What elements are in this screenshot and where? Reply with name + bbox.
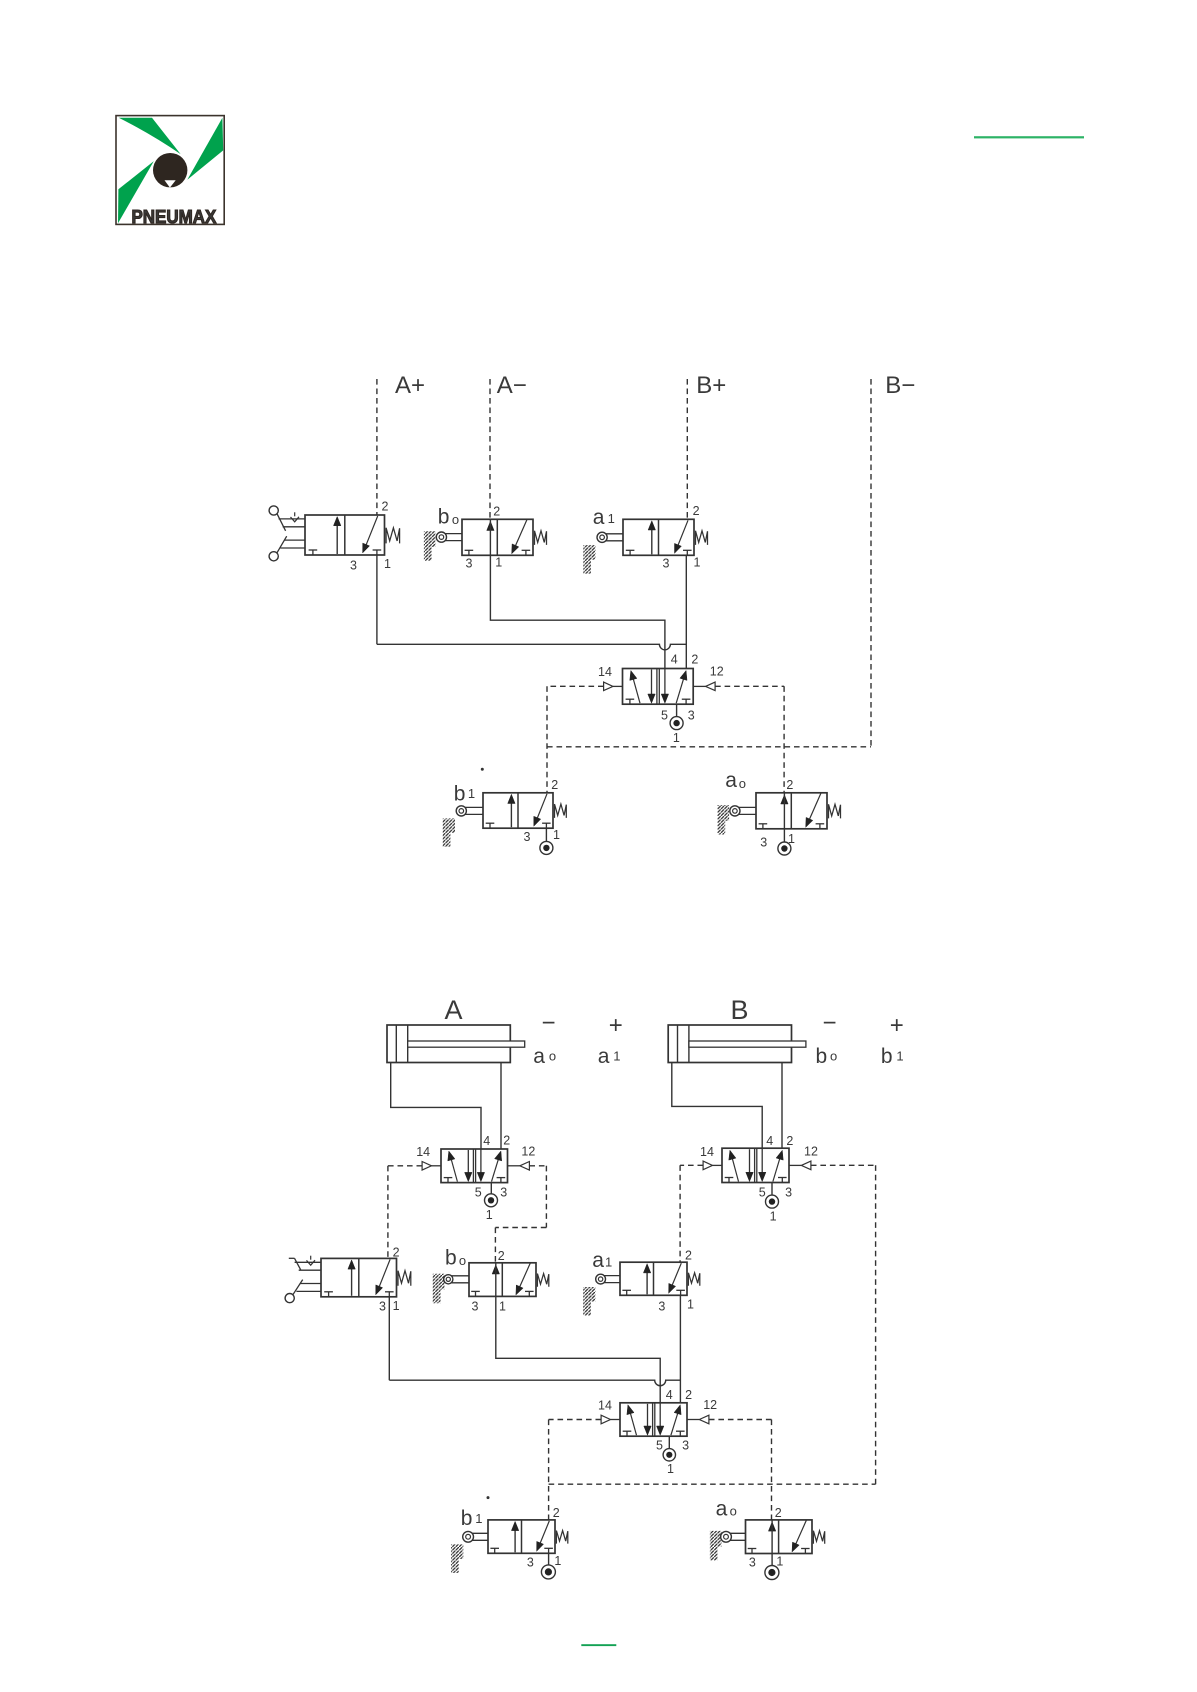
valve VA 5/2 power valve for cylinder A bbox=[422, 1149, 529, 1183]
svg-text:3: 3 bbox=[749, 1555, 756, 1569]
valve a1L limit valve 3/2 (lower) bbox=[583, 1262, 700, 1315]
svg-text:1: 1 bbox=[499, 1300, 506, 1314]
svg-text:A: A bbox=[445, 995, 463, 1025]
valve b1L limit valve 3/2 (lower bottom row) bbox=[451, 1520, 568, 1573]
svg-text:14: 14 bbox=[700, 1145, 714, 1159]
svg-text:b: b bbox=[816, 1045, 828, 1068]
svg-text:2: 2 bbox=[551, 778, 558, 792]
pressure source under a0 bbox=[778, 829, 791, 855]
valve b0 limit valve 3/2 (upper) bbox=[424, 519, 547, 560]
svg-text:−: − bbox=[823, 1010, 837, 1037]
svg-text:1: 1 bbox=[608, 511, 615, 526]
valve a0 labels bbox=[725, 769, 795, 850]
valve VA labels bbox=[416, 1134, 535, 1200]
svg-text:1: 1 bbox=[694, 556, 701, 570]
valve a0 limit valve 3/2 (upper bottom row) bbox=[717, 793, 840, 835]
svg-text:b: b bbox=[454, 782, 466, 805]
pressure source under VB bbox=[766, 1183, 779, 1224]
wire junction horizontal to 5/2 port2 with hop over port4 line bbox=[377, 644, 686, 650]
svg-text:o: o bbox=[549, 1049, 556, 1064]
valve M2 5/2 memory valve (lower) bbox=[601, 1403, 709, 1436]
pilot bus dashed horizontal to B- bbox=[547, 746, 871, 748]
svg-text:a: a bbox=[533, 1045, 545, 1068]
cylinder A stroke labels minus plus a0 a1 bbox=[533, 1010, 623, 1069]
pilot line 14 of M1 to node b1 bbox=[547, 686, 604, 793]
svg-text:1: 1 bbox=[495, 556, 502, 570]
svg-text:A+: A+ bbox=[395, 372, 425, 399]
pilot line VB 14 from a1 port 2 bbox=[680, 1165, 703, 1262]
svg-text:a: a bbox=[598, 1045, 610, 1068]
svg-text:14: 14 bbox=[598, 665, 612, 679]
valve a1 labels bbox=[593, 504, 701, 571]
svg-text:b: b bbox=[881, 1045, 893, 1068]
svg-text:12: 12 bbox=[804, 1145, 818, 1159]
svg-text:B: B bbox=[731, 995, 749, 1025]
svg-text:2: 2 bbox=[693, 504, 700, 518]
svg-text:1: 1 bbox=[673, 731, 680, 745]
green rule top right bbox=[974, 136, 1084, 138]
svg-text:2: 2 bbox=[775, 1506, 782, 1520]
wire b0 port1 to 5/2 port 4 bbox=[490, 555, 665, 668]
svg-text:2: 2 bbox=[493, 505, 500, 519]
svg-text:12: 12 bbox=[521, 1145, 535, 1159]
valve b1L labels and dot bbox=[461, 1496, 562, 1569]
svg-text:5: 5 bbox=[759, 1186, 766, 1200]
svg-text:12: 12 bbox=[710, 665, 724, 679]
svg-text:1: 1 bbox=[896, 1049, 903, 1064]
wire b0L port1 to M2 port 4 bbox=[496, 1296, 660, 1402]
svg-text:o: o bbox=[459, 1253, 466, 1268]
wire start valve port1 to M2 port 2 with hop bbox=[389, 1297, 680, 1386]
svg-text:B−: B− bbox=[885, 372, 915, 399]
svg-text:2: 2 bbox=[503, 1134, 510, 1148]
svg-text:a: a bbox=[592, 1249, 604, 1272]
valve V1L 3/2 manual start valve (lower) bbox=[285, 1256, 411, 1303]
svg-text:2: 2 bbox=[691, 653, 698, 667]
svg-text:o: o bbox=[452, 512, 459, 527]
cylinder B double acting bbox=[668, 1025, 806, 1063]
valve M1 5/2 memory valve (upper) bbox=[604, 669, 716, 705]
svg-text:1: 1 bbox=[468, 786, 475, 801]
wire cylinder A front port to valve VA port 2 bbox=[500, 1063, 502, 1150]
wire a1 port1 to 5/2 port 2 bbox=[685, 555, 687, 668]
svg-text:1: 1 bbox=[486, 1208, 493, 1222]
svg-text:1: 1 bbox=[687, 1298, 694, 1312]
svg-text:b: b bbox=[438, 506, 450, 529]
pilot bus dashed horizontal lower bbox=[549, 1483, 876, 1485]
svg-text:1: 1 bbox=[393, 1299, 400, 1313]
wire valve V1 port1 down bbox=[376, 555, 378, 644]
svg-text:3: 3 bbox=[527, 1555, 534, 1569]
svg-text:5: 5 bbox=[656, 1439, 663, 1453]
svg-text:14: 14 bbox=[598, 1399, 612, 1413]
svg-text:1: 1 bbox=[605, 1255, 612, 1270]
valve b0L labels bbox=[445, 1246, 506, 1313]
svg-text:PNEUMAX: PNEUMAX bbox=[132, 206, 217, 227]
pilot line 12 of M1 to node a0 bbox=[715, 686, 784, 793]
valve b1 limit valve 3/2 (upper bottom row) bbox=[443, 793, 567, 847]
svg-text:1: 1 bbox=[667, 1462, 674, 1476]
svg-text:−: − bbox=[542, 1010, 556, 1037]
svg-text:A−: A− bbox=[497, 372, 527, 399]
valve V1 port labels 2 3 1 bbox=[350, 500, 391, 573]
svg-text:2: 2 bbox=[786, 778, 793, 792]
svg-text:2: 2 bbox=[685, 1388, 692, 1402]
wire cylinder A rear port to valve VA port 4 bbox=[391, 1063, 481, 1150]
svg-text:3: 3 bbox=[663, 557, 670, 571]
svg-text:3: 3 bbox=[682, 1439, 689, 1453]
svg-text:1: 1 bbox=[613, 1049, 620, 1064]
node A+ dashed signal line bbox=[376, 379, 378, 515]
svg-text:2: 2 bbox=[382, 500, 389, 514]
wire cylinder B rear port to valve VB port 4 bbox=[672, 1063, 762, 1149]
svg-text:3: 3 bbox=[350, 559, 357, 573]
wire a1L port1 to M2 port 2 bbox=[679, 1295, 681, 1403]
valve V1 3/2 manual start valve (upper) bbox=[269, 506, 400, 561]
valve a0L labels bbox=[716, 1497, 784, 1569]
pilot line VB 12 to pilot bus bbox=[811, 1165, 876, 1484]
cylinder B stroke labels minus plus b0 b1 bbox=[816, 1010, 904, 1069]
svg-text:+: + bbox=[890, 1012, 904, 1039]
svg-text:5: 5 bbox=[661, 709, 668, 723]
svg-text:4: 4 bbox=[766, 1134, 773, 1148]
valve M1 labels 14 12 4 2 5 3 bbox=[598, 653, 724, 723]
svg-text:5: 5 bbox=[475, 1186, 482, 1200]
svg-text:o: o bbox=[739, 776, 746, 791]
svg-text:3: 3 bbox=[524, 830, 531, 844]
valve VB 5/2 power valve for cylinder B bbox=[703, 1148, 811, 1182]
pressure source under M1 bbox=[670, 704, 683, 745]
wire cylinder B front port to valve VB port 2 bbox=[781, 1063, 783, 1149]
svg-text:+: + bbox=[609, 1012, 623, 1039]
svg-text:4: 4 bbox=[483, 1134, 490, 1148]
pressure source under b1 bbox=[540, 828, 553, 854]
valve a0L limit valve 3/2 (lower bottom row) bbox=[710, 1520, 825, 1561]
svg-text:1: 1 bbox=[384, 557, 391, 571]
svg-text:a: a bbox=[593, 506, 605, 529]
svg-text:b: b bbox=[445, 1246, 457, 1269]
valve M2 labels bbox=[598, 1388, 717, 1453]
svg-text:3: 3 bbox=[472, 1300, 479, 1314]
pilot line VA 12 from b0 port 2 bbox=[495, 1166, 546, 1263]
svg-text:4: 4 bbox=[666, 1388, 673, 1402]
pilot line VA 14 from start valve port 2 bbox=[388, 1166, 422, 1259]
svg-text:3: 3 bbox=[500, 1186, 507, 1200]
node B- dashed signal line bbox=[870, 379, 872, 747]
svg-text:12: 12 bbox=[703, 1398, 717, 1412]
svg-text:B+: B+ bbox=[696, 372, 726, 399]
svg-text:1: 1 bbox=[770, 1210, 777, 1224]
cylinder A double acting bbox=[387, 1025, 525, 1063]
valve a1 limit valve 3/2 (upper) bbox=[583, 519, 707, 573]
svg-text:1: 1 bbox=[553, 828, 560, 842]
pressure source under M2 bbox=[663, 1436, 675, 1476]
svg-text:1: 1 bbox=[776, 1555, 783, 1569]
svg-text:o: o bbox=[730, 1504, 737, 1519]
svg-text:4: 4 bbox=[671, 653, 678, 667]
pressure source under b1L bbox=[541, 1553, 555, 1579]
svg-text:3: 3 bbox=[466, 557, 473, 571]
green rule bottom bbox=[581, 1644, 616, 1646]
svg-text:o: o bbox=[830, 1049, 837, 1064]
svg-text:3: 3 bbox=[760, 836, 767, 850]
svg-text:2: 2 bbox=[553, 1506, 560, 1520]
svg-text:2: 2 bbox=[498, 1249, 505, 1263]
PNEUMAX logo bbox=[116, 116, 224, 227]
valve b0L limit valve 3/2 (lower) bbox=[433, 1263, 549, 1304]
node A- dashed signal line bbox=[489, 379, 491, 519]
svg-text:14: 14 bbox=[416, 1145, 430, 1159]
node B+ dashed signal line bbox=[686, 379, 688, 519]
pressure source under a0L bbox=[765, 1554, 779, 1580]
svg-text:a: a bbox=[716, 1497, 728, 1520]
pilot line M2 12 to node a0L bbox=[709, 1420, 772, 1520]
svg-text:1: 1 bbox=[554, 1554, 561, 1568]
svg-text:3: 3 bbox=[658, 1299, 665, 1313]
svg-text:2: 2 bbox=[393, 1245, 400, 1259]
valve b1 labels and dot bbox=[454, 768, 560, 844]
svg-text:b: b bbox=[461, 1507, 473, 1530]
svg-text:2: 2 bbox=[786, 1134, 793, 1148]
svg-text:3: 3 bbox=[688, 709, 695, 723]
svg-text:1: 1 bbox=[475, 1511, 482, 1526]
valve V1L port labels bbox=[379, 1245, 400, 1313]
svg-text:3: 3 bbox=[785, 1186, 792, 1200]
svg-text:3: 3 bbox=[379, 1300, 386, 1314]
valve b0 labels bbox=[438, 505, 503, 571]
pressure source under VA bbox=[485, 1183, 498, 1222]
svg-text:a: a bbox=[725, 769, 737, 792]
valve a1L labels bbox=[592, 1248, 694, 1313]
pilot line M2 14 to node b1L bbox=[549, 1420, 602, 1520]
svg-text:2: 2 bbox=[685, 1248, 692, 1262]
valve VB labels bbox=[700, 1134, 818, 1200]
